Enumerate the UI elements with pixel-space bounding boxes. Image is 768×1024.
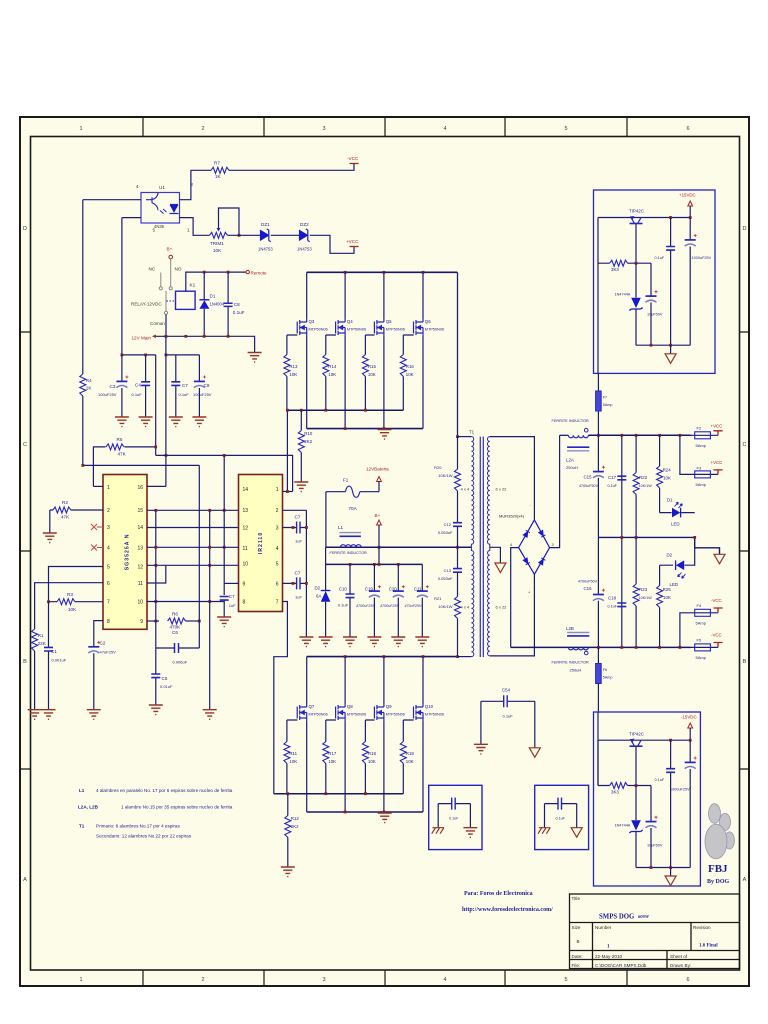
svg-text:FERRITE INDUCTOR: FERRITE INDUCTOR xyxy=(552,661,590,665)
net pin13 row to IR2110 pin11 xyxy=(147,546,239,548)
wire pin2 to R7 xyxy=(180,170,212,199)
svg-text:2K2: 2K2 xyxy=(291,824,299,829)
svg-text:14: 14 xyxy=(243,487,249,493)
svg-text:8: 8 xyxy=(107,619,110,625)
resistor R19 10K gate xyxy=(403,720,413,794)
wire pin5 xyxy=(49,567,104,602)
svg-text:10K: 10K xyxy=(663,476,671,481)
svg-text:TIP42C: TIP42C xyxy=(629,209,644,214)
svg-text:C2: C2 xyxy=(100,641,106,646)
svg-text:D2: D2 xyxy=(667,553,673,558)
fuse F1 70A xyxy=(326,491,346,493)
resistor R2 47K xyxy=(50,509,103,511)
transistor Q3 MTP50N06 xyxy=(297,319,307,337)
svg-text:C9: C9 xyxy=(204,383,210,388)
rail B+ xyxy=(326,546,472,548)
svg-text:TRIM1: TRIM1 xyxy=(210,241,224,246)
earth xyxy=(670,345,672,354)
winding notes xyxy=(78,788,233,839)
wire secondary center tap to earth xyxy=(490,547,501,563)
svg-text:1: 1 xyxy=(107,485,110,491)
svg-text:6 x 22: 6 x 22 xyxy=(496,605,508,610)
capacitor 0.1uF xyxy=(670,218,672,346)
power terminal +VCC xyxy=(350,246,359,248)
svg-text:-VCC: -VCC xyxy=(711,633,722,638)
svg-text:C11: C11 xyxy=(414,587,422,592)
zener DZ1 1N4753 xyxy=(261,229,271,242)
svg-text:C13: C13 xyxy=(444,568,452,573)
snubber R20 10K/1W xyxy=(457,437,459,523)
svg-text:MTP50N06: MTP50N06 xyxy=(347,328,366,332)
svg-text:F1: F1 xyxy=(343,478,349,483)
svg-text:C20: C20 xyxy=(389,587,398,592)
svg-text:0.001uF: 0.001uF xyxy=(52,658,67,663)
svg-text:4: 4 xyxy=(443,126,446,132)
svg-text:Date:: Date: xyxy=(572,954,583,959)
no-connect X pin3 xyxy=(91,524,103,530)
svg-text:6: 6 xyxy=(686,977,689,983)
gate rail lower bank xyxy=(274,793,404,795)
wire pin2 bootstrap xyxy=(283,509,307,511)
svg-text:100uF25V: 100uF25V xyxy=(98,392,117,397)
power terminal -VCC xyxy=(350,163,359,165)
svg-text:0.053uF: 0.053uF xyxy=(438,576,453,581)
svg-text:6: 6 xyxy=(107,581,110,587)
svg-text:C16: C16 xyxy=(584,586,593,591)
svg-text:R3: R3 xyxy=(67,592,73,597)
svg-text:Title: Title xyxy=(572,896,581,901)
power terminal +VCC xyxy=(713,431,722,436)
svg-text:R6: R6 xyxy=(172,612,178,617)
svg-text:10K: 10K xyxy=(289,372,297,377)
svg-text:LED: LED xyxy=(670,582,679,587)
svg-text:0.1uF: 0.1uF xyxy=(608,484,618,488)
svg-text:+15VDC: +15VDC xyxy=(679,193,696,198)
capacitor C18 0.1uF xyxy=(617,603,626,607)
capacitor 10uF50V xyxy=(650,263,652,345)
svg-text:F3: F3 xyxy=(697,466,702,471)
svg-text:Q4: Q4 xyxy=(347,319,353,324)
svg-text:4700uF50V: 4700uF50V xyxy=(578,580,598,584)
svg-text:1: 1 xyxy=(187,228,190,233)
svg-text:Primario: 8 alambres No.17 por: Primario: 8 alambres No.17 por 4 espiras xyxy=(96,824,180,829)
transistor Q5 MTP50N06 xyxy=(374,319,384,337)
relay coil K1 xyxy=(167,300,176,302)
wire pin1 to gate rail riser xyxy=(283,410,293,491)
svg-text:R10: R10 xyxy=(304,431,313,436)
svg-text:10K: 10K xyxy=(68,607,77,612)
earth box2 xyxy=(576,804,578,828)
power terminal -VCC xyxy=(713,608,722,613)
regulator top rail xyxy=(598,739,690,741)
resistor R6 470K xyxy=(168,618,186,624)
zener DZ2 1N4753 xyxy=(300,229,310,242)
svg-text:0.1uF: 0.1uF xyxy=(449,817,459,821)
svg-text:14: 14 xyxy=(137,525,143,531)
svg-text:4700uF50V: 4700uF50V xyxy=(579,484,599,488)
capacitor C3 100uF25V xyxy=(121,355,123,417)
svg-text:1: 1 xyxy=(79,977,82,983)
resistor R3 10K on pin7 xyxy=(49,601,104,603)
node Remote xyxy=(246,270,249,273)
resistor 3K3 xyxy=(598,740,651,785)
wire pin6 xyxy=(35,583,103,629)
capacitor C7 1uF (left) xyxy=(223,583,225,617)
svg-text:11: 11 xyxy=(138,581,143,587)
svg-text:C10: C10 xyxy=(339,587,348,592)
svg-text:MUR3520(x4): MUR3520(x4) xyxy=(499,514,525,519)
svg-text:C7: C7 xyxy=(295,571,301,576)
svg-text:R22: R22 xyxy=(639,475,648,480)
svg-text:12: 12 xyxy=(137,565,143,571)
svg-text:R16: R16 xyxy=(406,364,415,369)
svg-text:C7: C7 xyxy=(182,383,188,388)
wire pin1 to trimmer xyxy=(180,218,210,236)
svg-text:3: 3 xyxy=(276,526,279,532)
svg-text:1uF: 1uF xyxy=(295,539,302,544)
T1 secondary winding xyxy=(487,437,489,656)
svg-text:T1: T1 xyxy=(79,824,85,829)
svg-text:250uH: 250uH xyxy=(570,668,582,673)
svg-text:R2: R2 xyxy=(62,500,68,505)
svg-text:F2: F2 xyxy=(697,426,702,431)
resistor R18 10K gate xyxy=(365,720,374,794)
svg-text:Comun: Comun xyxy=(150,321,165,326)
transistor Q4 MTP50N06 xyxy=(336,319,346,337)
regulator top rail xyxy=(598,217,690,219)
node 12V Main vertical to pin16 xyxy=(165,336,167,486)
svg-text:FERRITE INDUCTOR: FERRITE INDUCTOR xyxy=(552,419,590,423)
transistor Q10 MTP50N06 xyxy=(414,704,424,722)
svg-text:250uH: 250uH xyxy=(566,465,578,470)
svg-text:5Amp: 5Amp xyxy=(696,443,707,448)
svg-text:2: 2 xyxy=(107,508,110,514)
svg-text:10K: 10K xyxy=(328,759,336,764)
regulator left rail xyxy=(597,712,599,786)
svg-text:5: 5 xyxy=(107,565,110,571)
ground under C5 xyxy=(149,705,163,715)
resistor 3K3 xyxy=(598,262,651,264)
svg-text:3: 3 xyxy=(322,126,325,132)
drain rail upper bank xyxy=(307,271,458,273)
svg-text:C4: C4 xyxy=(135,383,141,388)
svg-text:C19: C19 xyxy=(365,587,374,592)
svg-text:Para: Foros de Electronica: Para: Foros de Electronica xyxy=(464,891,533,897)
svg-text:F7: F7 xyxy=(603,396,607,400)
svg-text:8: 8 xyxy=(243,600,246,606)
ground on source rail xyxy=(378,430,392,440)
title block frame xyxy=(570,894,740,969)
svg-text:Q7: Q7 xyxy=(309,704,315,709)
svg-text:B+: B+ xyxy=(167,247,173,252)
svg-text:R23: R23 xyxy=(639,587,648,592)
border column ticks bottom xyxy=(143,970,627,986)
svg-text:C17: C17 xyxy=(608,475,617,480)
svg-text:10K: 10K xyxy=(406,372,414,377)
ground xyxy=(169,417,183,427)
aux regulator box -15V xyxy=(594,712,701,886)
svg-text:10K/1W: 10K/1W xyxy=(639,596,653,600)
ground under C2 xyxy=(87,710,101,720)
svg-text:70A: 70A xyxy=(349,506,358,511)
svg-text:5: 5 xyxy=(564,126,567,132)
svg-text:3K3: 3K3 xyxy=(611,790,619,795)
svg-text:4 alambres en paralelo No. 17: 4 alambres en paralelo No. 17 por 6 espi… xyxy=(96,788,233,793)
svg-text:16: 16 xyxy=(137,485,143,491)
svg-text:F4: F4 xyxy=(697,603,702,608)
svg-text:C5: C5 xyxy=(162,676,168,681)
wire opto pin5 down xyxy=(121,218,123,355)
svg-text:+VCC: +VCC xyxy=(711,460,723,465)
supply rail C3 C4 xyxy=(122,354,156,356)
ground under R12 xyxy=(281,867,295,877)
svg-text:0.1uF: 0.1uF xyxy=(179,392,190,397)
logo paw (FBJ By DOG) xyxy=(705,804,734,859)
resistor R4 1K xyxy=(80,374,86,396)
ground under R2 xyxy=(49,510,51,533)
svg-text:B: B xyxy=(577,939,580,944)
svg-text:R17: R17 xyxy=(328,751,337,756)
svg-text:B: B xyxy=(23,659,27,665)
svg-text:0.1uF: 0.1uF xyxy=(132,392,143,397)
ground under C1 xyxy=(42,710,56,720)
svg-text:Number: Number xyxy=(595,925,612,930)
no-connect X pin4 xyxy=(91,545,103,551)
svg-text:10K/1W: 10K/1W xyxy=(639,484,653,488)
svg-text:MTP50N06: MTP50N06 xyxy=(425,713,444,717)
svg-text:1N4004: 1N4004 xyxy=(210,302,225,307)
svg-text:L2B: L2B xyxy=(566,626,574,631)
svg-text:10K/1W: 10K/1W xyxy=(438,604,452,609)
drain rail lower bank xyxy=(307,656,458,658)
capacitor C4 0.1uF xyxy=(145,355,147,417)
svg-text:4: 4 xyxy=(107,546,110,552)
svg-text:4: 4 xyxy=(276,546,279,552)
svg-text:-15VDC: -15VDC xyxy=(681,715,697,720)
capacitor C20 4700uF25V xyxy=(397,564,399,637)
ground on source rail xyxy=(378,813,392,823)
fuse F4 5Amp branch xyxy=(680,613,718,648)
shield box 2 xyxy=(535,785,589,849)
svg-text:47uF25V: 47uF25V xyxy=(100,650,117,655)
capacitor C10 0.1uF xyxy=(349,564,351,637)
svg-text:C7: C7 xyxy=(229,594,235,599)
wire pin16 xyxy=(147,485,166,487)
inductor L1 ferrite xyxy=(340,535,361,537)
diode D1 1N4004 xyxy=(203,272,205,300)
aux regulator box +15V xyxy=(594,190,716,373)
wire to DZ1 xyxy=(228,234,261,236)
svg-text:1N4744A: 1N4744A xyxy=(615,824,631,828)
svg-text:D: D xyxy=(23,226,27,232)
resistor R11 10K gate xyxy=(287,720,298,794)
wire R7 to -VCC xyxy=(229,164,354,171)
wire pin9 xyxy=(224,582,238,584)
svg-text:0.1uF: 0.1uF xyxy=(233,310,245,315)
wire DZ2 to +VCC xyxy=(310,235,354,253)
svg-text:R7: R7 xyxy=(214,161,220,166)
svg-text:D: D xyxy=(743,226,747,232)
power terminal -VCC xyxy=(713,643,722,648)
resistor R23 10K/1W xyxy=(635,537,637,647)
ground xyxy=(192,417,206,427)
svg-text:22K: 22K xyxy=(38,641,47,646)
input cap rail xyxy=(326,563,423,565)
resistor R10 2K2 pulldown xyxy=(300,410,302,482)
svg-text:10: 10 xyxy=(243,562,249,568)
wire pin15/9/10 vertical xyxy=(155,510,157,621)
supply rail C7 C9 xyxy=(166,354,200,356)
resistor R15 10K gate xyxy=(365,335,374,410)
net pin10 row xyxy=(147,601,224,603)
svg-text:47K: 47K xyxy=(118,452,127,457)
svg-text:L2A: L2A xyxy=(566,458,574,463)
svg-text:9: 9 xyxy=(140,619,143,625)
wire bridge right vertex to plus rail xyxy=(550,435,560,547)
svg-text:6 x 22: 6 x 22 xyxy=(496,487,508,492)
border column ticks top xyxy=(143,117,627,137)
wire pin4 xyxy=(83,199,141,201)
fuse F6 5Amp vertical xyxy=(597,647,599,711)
svg-text:B: B xyxy=(743,659,747,665)
svg-text:C: C xyxy=(23,442,27,448)
capacitor 1000uF25V xyxy=(689,218,691,346)
capacitor C15 4700uF50V xyxy=(597,435,599,537)
chassis ground box2 xyxy=(544,804,546,828)
svg-text:Q6: Q6 xyxy=(425,319,431,324)
svg-text:1uF: 1uF xyxy=(295,595,302,600)
svg-text:47K: 47K xyxy=(61,515,70,520)
svg-text:C15: C15 xyxy=(584,475,593,480)
svg-text:+VCC: +VCC xyxy=(346,239,359,244)
svg-text:7: 7 xyxy=(276,600,279,606)
diode D2 6A xyxy=(325,564,327,590)
svg-text:1uF: 1uF xyxy=(229,603,236,608)
ground xyxy=(139,417,153,427)
svg-text:R19: R19 xyxy=(406,751,415,756)
svg-text:A: A xyxy=(23,877,27,883)
svg-text:0.1uF: 0.1uF xyxy=(608,605,618,609)
svg-text:C: C xyxy=(743,442,747,448)
wire pin5 xyxy=(122,217,141,219)
svg-text:1.6 Final: 1.6 Final xyxy=(699,944,718,949)
svg-text:3: 3 xyxy=(322,977,325,983)
svg-text:11: 11 xyxy=(243,546,248,552)
gate rail upper bank xyxy=(287,409,403,411)
svg-text:-VCC: -VCC xyxy=(711,598,722,603)
snubber C13 0.053uF xyxy=(457,547,459,568)
svg-text:R21: R21 xyxy=(434,596,442,601)
transistor Q7 MTP50N06 xyxy=(297,704,307,722)
fuse F5 5Amp xyxy=(691,646,719,648)
svg-text:2: 2 xyxy=(276,508,279,514)
svg-text:B+: B+ xyxy=(375,513,381,518)
svg-text:5Amp: 5Amp xyxy=(696,482,707,487)
svg-text:3K3: 3K3 xyxy=(611,267,619,272)
capacitor 0.1uF xyxy=(670,740,672,867)
svg-text:Sheet of: Sheet of xyxy=(670,954,688,959)
LED D2 xyxy=(660,548,695,565)
shield box 1 xyxy=(429,785,482,849)
border row ticks right xyxy=(740,332,750,769)
svg-text:2: 2 xyxy=(201,126,204,132)
svg-text:C:\DOG\CAR SMPS.Ddb: C:\DOG\CAR SMPS.Ddb xyxy=(595,963,647,968)
capacitor C54 0.1uF bridge gnd xyxy=(481,700,535,702)
svg-text:4: 4 xyxy=(510,543,512,547)
svg-text:5Amp: 5Amp xyxy=(696,621,707,626)
capacitor C1 0.001uF xyxy=(48,602,50,710)
svg-text:0.1uF: 0.1uF xyxy=(338,603,349,608)
resistor R22 10K/1W xyxy=(635,435,637,537)
svg-text:Q5: Q5 xyxy=(386,319,392,324)
svg-text:6A: 6A xyxy=(316,594,321,599)
source rail lower bank xyxy=(307,811,423,813)
svg-text:10K/1W: 10K/1W xyxy=(438,473,452,478)
border row ticks left xyxy=(20,332,31,769)
ground xyxy=(115,417,129,427)
svg-text:Q10: Q10 xyxy=(425,704,434,709)
svg-text:L1: L1 xyxy=(338,525,344,530)
rail -V output xyxy=(511,646,691,648)
svg-text:SG3525A N: SG3525A N xyxy=(125,534,131,571)
resistor R5 47K xyxy=(93,447,155,487)
svg-text:DZ2: DZ2 xyxy=(300,222,309,227)
svg-text:1: 1 xyxy=(79,126,82,132)
earth xyxy=(670,868,672,877)
svg-text:R5: R5 xyxy=(117,437,123,442)
svg-text:0.053uF: 0.053uF xyxy=(438,530,453,535)
svg-text:10: 10 xyxy=(137,600,143,606)
svg-text:15: 15 xyxy=(137,508,143,514)
IC U3 IR2110 xyxy=(239,475,283,612)
svg-text:FERRITE INDUCTOR: FERRITE INDUCTOR xyxy=(330,551,368,555)
regulator left rail xyxy=(597,218,599,374)
svg-text:U1: U1 xyxy=(159,185,165,190)
trimmer TRIM1 10K xyxy=(210,232,228,238)
svg-text:MTP50N06: MTP50N06 xyxy=(386,713,405,717)
capacitor 0.1uF in box2 xyxy=(545,803,577,805)
svg-text:LED: LED xyxy=(671,522,680,527)
svg-text:2K2: 2K2 xyxy=(304,439,312,444)
svg-text:+VCC: +VCC xyxy=(711,424,723,429)
LED D1 xyxy=(660,512,695,514)
wire com vertical to ground xyxy=(209,510,211,709)
bridge rectifier MUR3520(x4) xyxy=(519,520,550,574)
svg-text:1000uF25V: 1000uF25V xyxy=(692,256,712,260)
resistor R17 10K gate xyxy=(326,720,336,794)
fuse F3 5Amp branch xyxy=(680,435,718,474)
zener 1N4744A xyxy=(635,786,637,821)
signal ground box1 xyxy=(469,804,471,828)
capacitor 1000uF25V xyxy=(689,740,691,867)
svg-text:1K: 1K xyxy=(86,386,93,391)
wire secondary top to bridge xyxy=(490,437,535,520)
net pin12 row to IR2110 pin10 xyxy=(147,564,239,566)
svg-text:13: 13 xyxy=(243,508,249,514)
net pin14 row to IR2110 pin12 xyxy=(147,527,239,529)
svg-text:L2A, L2B: L2A, L2B xyxy=(78,805,99,810)
svg-text:MTP50N06: MTP50N06 xyxy=(386,328,405,332)
svg-text:2: 2 xyxy=(201,977,204,983)
rail +V output xyxy=(588,434,690,436)
svg-text:4700uF25V: 4700uF25V xyxy=(356,604,376,608)
wire rail drop to R5 xyxy=(155,355,157,456)
mid output rail xyxy=(598,537,719,554)
svg-text:10K: 10K xyxy=(368,372,376,377)
svg-text:0.1uF: 0.1uF xyxy=(503,714,514,719)
fuse F7 5Amp vertical xyxy=(597,373,599,435)
svg-text:F5: F5 xyxy=(697,638,702,643)
